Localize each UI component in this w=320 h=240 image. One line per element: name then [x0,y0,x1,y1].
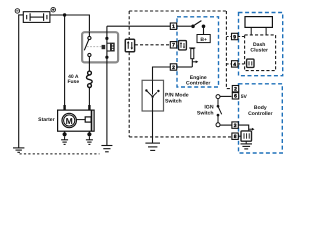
pin 7 [170,42,176,49]
svg-text:Switch: Switch [165,98,182,104]
svg-text:1: 1 [172,24,175,30]
wire battery minus down left side [19,15,24,148]
chassis dashed line [20,153,100,155]
starter post right [88,105,90,110]
wire ign bottom to pin 3 [220,124,232,126]
pin 4 [232,61,238,68]
starter solenoid contact [85,117,91,122]
pin 1 [170,23,176,30]
dashed wire boundary to pin 4 [226,63,231,65]
gauge leg left [250,27,252,35]
switch S1 (engine controller) [191,21,205,29]
starter post left [63,105,65,110]
svg-text:5V: 5V [241,94,248,100]
relay switch blade [84,40,89,51]
pin 3 [232,122,238,129]
dashed wire pin 4 to connector [238,63,247,65]
resistor R1 [189,48,195,67]
vehicle boundary dashed left edge upper [128,11,130,39]
arrow tap [192,60,198,63]
dash cluster inner dashed box [245,35,276,71]
dash cluster blue box [239,13,283,76]
connector C2 (engine controller) [179,41,187,50]
ground G4 (body controller) [241,141,253,149]
ground G1 (battery) [13,148,24,152]
dashed wire pin 9 to cluster [238,36,245,38]
pin 2 (body controller) [232,86,238,93]
svg-text:P/N Mode: P/N Mode [165,92,189,98]
wire battery plus to relay [50,15,90,31]
wire fuse to starter [88,88,90,105]
svg-text:Controller: Controller [186,80,210,86]
engine controller blue box [177,17,219,87]
svg-text:Controller: Controller [248,111,272,117]
relay switch contact bottom [88,53,91,71]
wire P/N switch to ground [152,98,154,143]
relay coil armature slug [102,45,106,49]
P/N switch contacts [145,80,159,98]
wire motor to solenoid [76,119,85,121]
svg-text:2: 2 [234,87,237,93]
relay actuation dashed link [87,46,102,48]
node junction [63,13,66,16]
wire pin 3 to connector [238,125,248,131]
vehicle boundary dashed right edge [226,11,231,89]
ign switch [216,95,222,127]
vehicle boundary dashed bottom edge [129,136,231,138]
node coil top [105,37,108,40]
battery B1 [23,12,50,23]
relay K1 box [82,32,118,62]
svg-text:9: 9 [233,34,236,40]
svg-text:Starter: Starter [38,117,54,123]
fuse F1 40A [87,71,93,87]
wire junction down to starter [64,15,66,105]
node coil bottom [105,56,108,59]
wire pin 2 to P/N switch [153,67,171,80]
vehicle boundary dashed top edge [129,10,226,12]
relay coil [107,43,115,52]
dashed wire boundary to pin 9 [226,36,231,38]
pin 8 [232,133,238,140]
svg-text:8: 8 [234,134,237,140]
svg-text:Fuse: Fuse [67,79,79,85]
connector C4 (body controller) [241,131,252,141]
relay switch contact top [88,31,91,39]
wire relay coil branch to pin 1 [107,25,170,27]
pin 2 (engine controller) [170,64,176,71]
wire resistor to pin 2 [177,66,193,68]
dashed wire connector to pin 7 [135,44,171,46]
gauge display [245,17,272,28]
P/N mode switch box [142,80,163,111]
svg-text:Switch: Switch [197,111,214,117]
arrow tap (body controller) [249,128,255,131]
B+ box [197,35,210,44]
pin 9 [232,33,238,40]
battery minus terminal [15,9,20,14]
gauge leg right [265,27,267,35]
ground G3 (P/N switch) [145,143,160,150]
pin 6 [232,93,238,100]
svg-text:7: 7 [172,43,175,49]
body controller blue box [239,84,283,153]
starter solenoid plunger [91,110,93,131]
svg-text:6: 6 [234,94,237,100]
wire coil branch vertical [106,26,108,145]
connector C1 (boundary, arrows) [125,39,134,52]
svg-text:M: M [66,116,73,126]
svg-text:B+: B+ [200,37,207,43]
wire ign top to pin 6 [220,95,232,97]
svg-text:4: 4 [233,62,236,68]
vehicle boundary dashed left edge lower [128,52,130,137]
svg-text:3: 3 [234,123,237,129]
motor M [62,113,76,127]
svg-text:Cluster: Cluster [250,47,268,53]
wire pin1 to switch [177,25,192,27]
starter box [58,110,95,131]
svg-text:2: 2 [172,65,175,71]
ground G2 (relay coil) [101,146,112,152]
battery plus terminal [51,7,56,12]
starter ground right [86,131,93,144]
starter ground left [61,131,68,144]
wire pin 8 to connector [238,135,241,137]
connector C3 (dash cluster) [247,59,254,67]
wire switch to B+ [203,26,205,34]
